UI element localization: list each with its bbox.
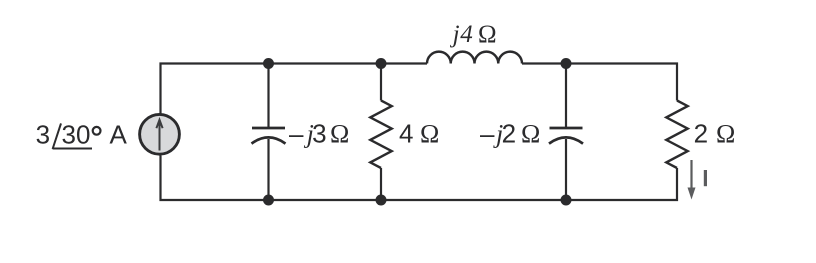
resistor R1 4ohm zigzag: [370, 101, 391, 169]
current source arrow: [156, 120, 162, 151]
svg-text:Ω: Ω: [521, 120, 540, 149]
wire capacitor C1 branch bottom: [267, 139, 269, 200]
label 2 ohm: [694, 119, 736, 149]
capacitor C2 -j2 plates: [549, 128, 583, 144]
label -j3 ohm: [289, 119, 349, 149]
label I: [704, 170, 707, 186]
inductor L1 j4: [427, 52, 522, 64]
node dot bottom C2: [561, 195, 572, 206]
svg-text:A: A: [110, 120, 128, 150]
resistor R2 2ohm zigzag: [666, 101, 687, 169]
wire top-right rail: [522, 64, 677, 101]
wire resistor R1 branch top: [380, 64, 382, 101]
label j4 ohm: [450, 21, 497, 48]
svg-text:2: 2: [502, 119, 516, 149]
wire bottom rail: [161, 156, 678, 201]
wire resistor R1 branch bottom: [380, 168, 382, 200]
current source IS1 circle: [140, 114, 180, 154]
wire top-left: source to top rail: [161, 64, 428, 114]
svg-text:3: 3: [36, 120, 50, 150]
node dot top C2: [561, 58, 572, 69]
degree symbol: [93, 127, 101, 135]
svg-text:3: 3: [312, 119, 326, 149]
svg-text:2: 2: [694, 119, 708, 149]
svg-text:4: 4: [460, 21, 473, 48]
label source 3/30 A: [36, 120, 128, 150]
node dot top R1: [376, 58, 387, 69]
capacitor C1 -j3 plates: [252, 128, 286, 144]
svg-text:–: –: [480, 119, 495, 149]
node dot bottom C1: [263, 195, 274, 206]
svg-text:j: j: [450, 21, 460, 48]
svg-text:Ω: Ω: [716, 120, 735, 149]
wire capacitor C2 branch top: [565, 64, 567, 129]
label 4 ohm: [399, 119, 439, 149]
svg-text:–: –: [289, 119, 304, 149]
wire capacitor C1 branch top: [267, 64, 269, 129]
svg-text:Ω: Ω: [420, 120, 439, 149]
angle symbol slash: [53, 123, 61, 149]
label -j2 ohm: [480, 119, 540, 149]
svg-text:Ω: Ω: [330, 120, 349, 149]
svg-text:4: 4: [399, 119, 413, 149]
current I arrow: [688, 160, 696, 200]
node dot bottom R1: [376, 195, 387, 206]
node dot top C1: [263, 58, 274, 69]
angle symbol underline: [53, 148, 92, 150]
wire capacitor C2 branch bottom: [565, 139, 567, 200]
svg-text:30: 30: [62, 120, 91, 150]
svg-text:Ω: Ω: [478, 21, 497, 48]
